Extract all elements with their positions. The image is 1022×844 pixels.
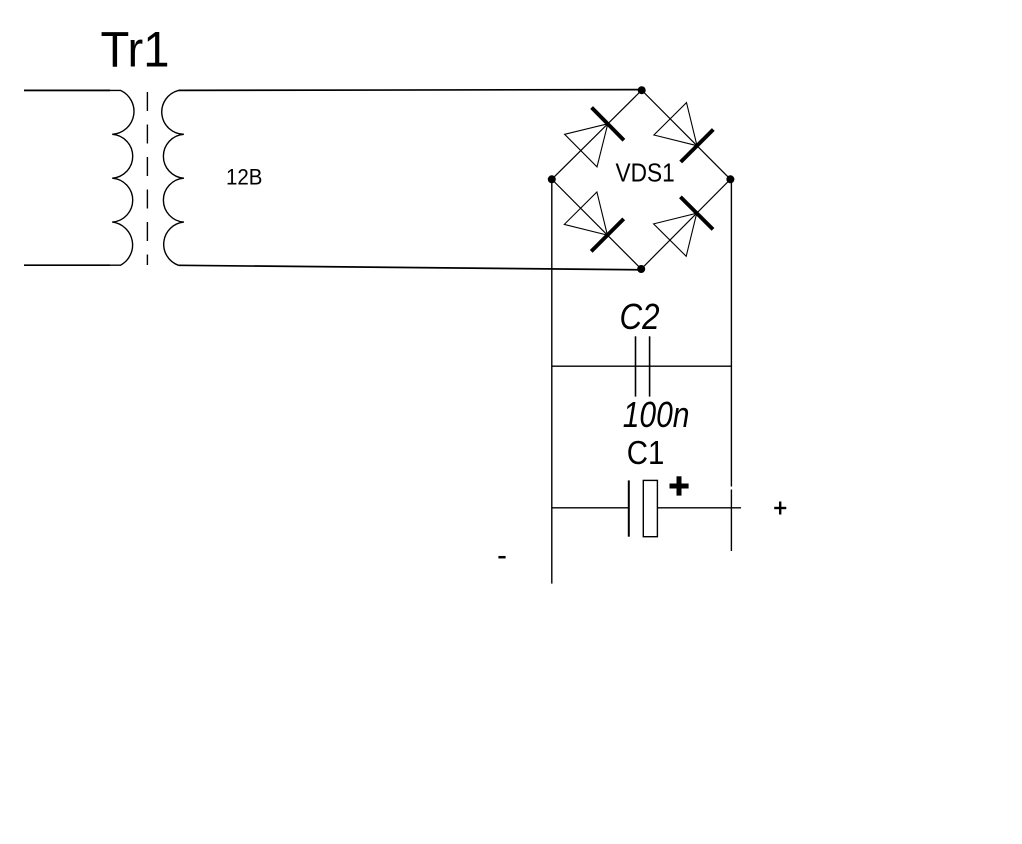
transformer core (dashed): [146, 92, 148, 265]
svg-text:100n: 100n: [623, 394, 690, 435]
svg-text:Tr1: Tr1: [101, 22, 170, 78]
wire: bridge left node down (minus rail): [551, 179, 553, 583]
wire: primary bottom lead: [24, 264, 110, 266]
bridge VDS1 diamond edges: [552, 90, 731, 269]
diode D3 cathode bar: [591, 219, 624, 252]
wire: secondary top to bridge top node: [179, 89, 642, 92]
svg-text:VDS1: VDS1: [616, 157, 675, 187]
capacitor C2 left plate: [635, 336, 637, 396]
wire: secondary bottom to bridge bottom node: [179, 265, 642, 270]
node dot: bridge right: [726, 175, 734, 183]
wire: C1 horizontal left segment: [552, 507, 629, 509]
capacitor C2 right plate: [649, 336, 651, 396]
diode D2 (top node to right node) triangle: [654, 103, 697, 146]
capacitor C1 negative plate: [628, 480, 630, 536]
svg-text:C1: C1: [627, 435, 665, 472]
wire: primary top lead: [24, 89, 110, 91]
diode D1 (left node to top node) triangle: [565, 124, 608, 167]
wire: C1 horizontal right segment: [657, 507, 741, 509]
C1 polarity plus: [670, 476, 689, 495]
wire: bridge right node down (plus rail, upper part): [730, 180, 732, 487]
diode D4 cathode bar: [680, 197, 713, 230]
output terminal minus: [498, 556, 505, 559]
wire: plus rail lower part: [730, 490, 732, 552]
svg-text:12B: 12B: [226, 164, 263, 189]
svg-text:C2: C2: [620, 296, 660, 337]
node dot: bridge bottom: [637, 265, 645, 273]
diode D3 (left node to bottom node) triangle: [564, 192, 607, 235]
transformer Tr1 secondary winding: [162, 90, 184, 265]
diode D4 (bottom node to right node) triangle: [654, 213, 697, 256]
node dot: bridge left: [548, 175, 556, 183]
transformer Tr1 primary winding: [24, 90, 134, 265]
diode D2 cathode bar: [681, 130, 714, 163]
wire: C2 horizontal: [552, 365, 732, 367]
capacitor C1 positive plate (hollow): [643, 480, 657, 536]
diode D1 cathode bar: [592, 108, 624, 141]
node dot: bridge top: [638, 86, 646, 94]
output terminal plus: [774, 502, 786, 515]
